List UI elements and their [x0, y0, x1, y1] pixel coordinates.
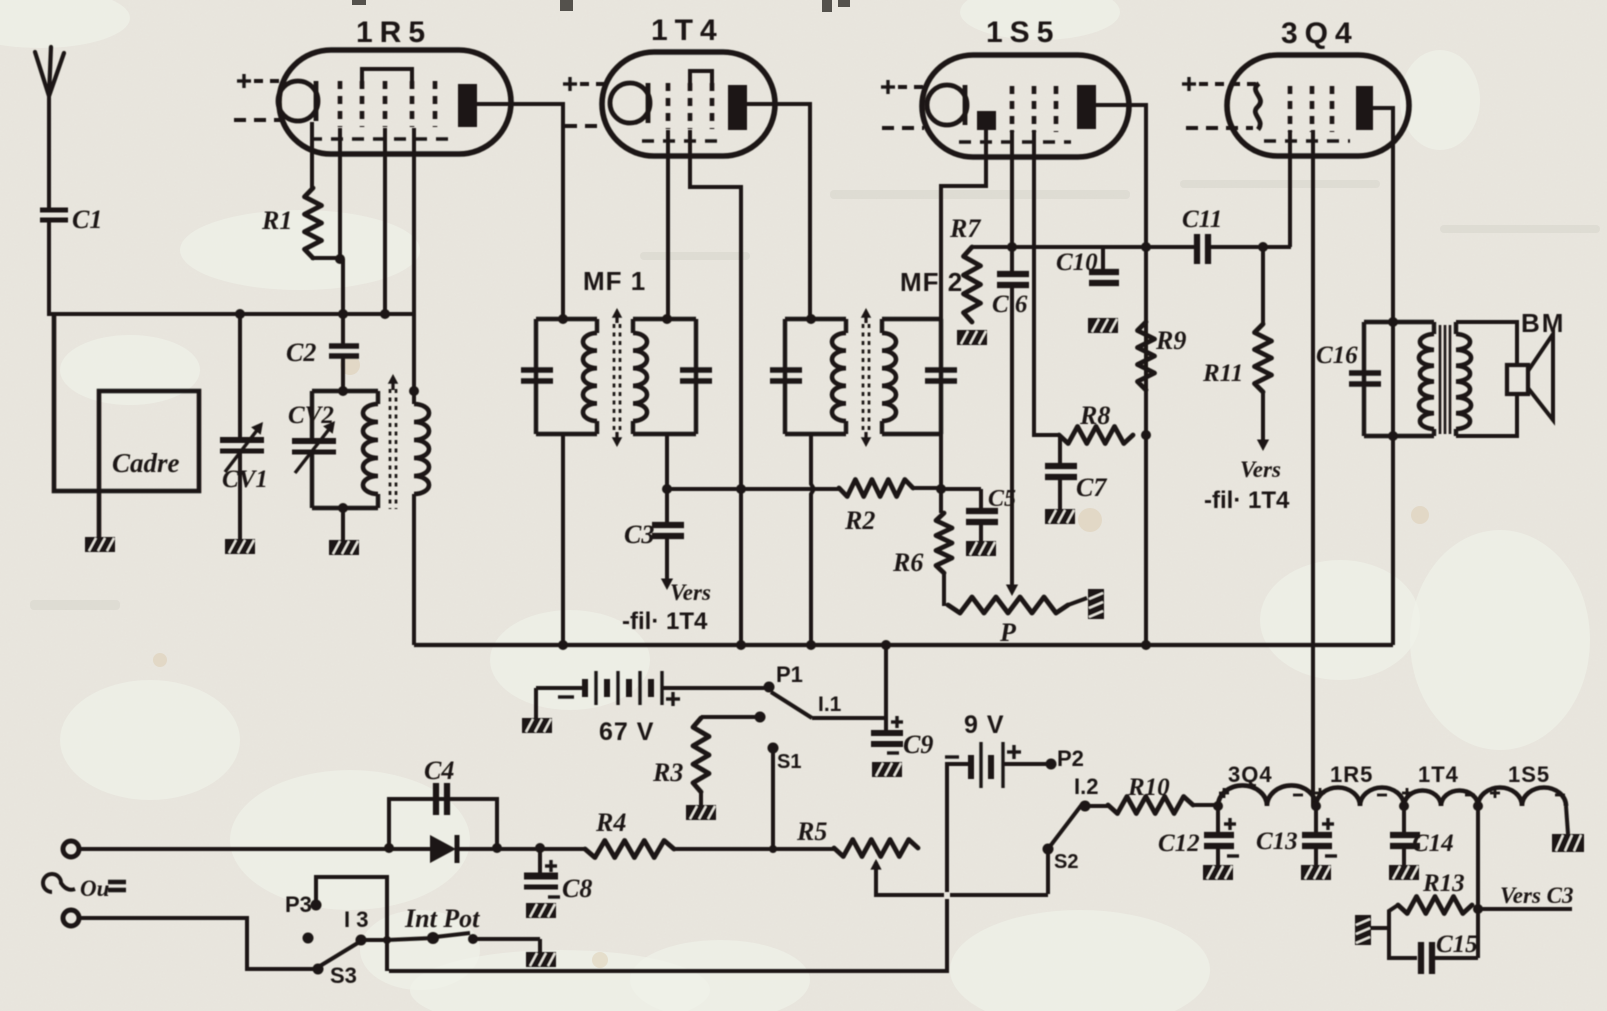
label I.1 — [818, 693, 842, 716]
label C16 — [1316, 342, 1358, 369]
label P3 — [285, 892, 312, 917]
label R10 — [1127, 774, 1170, 801]
label Vers fil 1T4 (C3) — [622, 580, 711, 635]
MF1 secondary coil — [633, 319, 647, 434]
1T4 minus lead — [565, 124, 607, 128]
label R9 — [1155, 326, 1186, 355]
wire diode to R4 — [457, 847, 585, 851]
contact P2 — [1046, 759, 1057, 770]
wire 9V plus to P2 — [1003, 762, 1048, 766]
variable capacitor CV1 — [220, 422, 264, 472]
svg-text:C11: C11 — [1182, 206, 1222, 233]
label C6 — [992, 291, 1028, 318]
3Q4 grid2 lead — [1311, 130, 1315, 806]
junction bus C9 — [881, 640, 891, 650]
svg-text:R13: R13 — [1422, 870, 1465, 897]
svg-text:C15: C15 — [1436, 931, 1478, 958]
label C3 — [624, 520, 654, 549]
junction C11-R11 — [1258, 242, 1268, 252]
junction AVC-1T4 lead — [736, 484, 746, 494]
svg-text:R9: R9 — [1155, 326, 1186, 355]
junction chain C14 — [1399, 801, 1409, 811]
wire AVC line — [667, 487, 839, 491]
svg-text:R5: R5 — [796, 817, 827, 846]
label R11 — [1202, 360, 1243, 387]
MF1 primary coil — [583, 319, 597, 434]
svg-text:Vers C3: Vers C3 — [1500, 883, 1574, 908]
filament choke 1R5 — [1316, 788, 1404, 806]
wire CV1 to ground — [238, 452, 242, 540]
label CV1 — [222, 466, 268, 493]
label 9V — [964, 711, 1005, 739]
svg-text:MF 2: MF 2 — [900, 267, 963, 297]
junction bus-grid3 — [380, 309, 390, 319]
junction C4 right — [492, 843, 502, 853]
wire R13 left — [1371, 905, 1398, 928]
svg-text:C8: C8 — [562, 874, 592, 903]
capacitor C12 — [1204, 806, 1239, 866]
wire Vers C3 — [1478, 907, 1572, 911]
label 1T4 — [651, 14, 724, 47]
label PU Ou — [43, 874, 126, 901]
wire input2 — [79, 918, 314, 969]
svg-text:R2: R2 — [844, 506, 875, 535]
1R5 filament lead — [310, 122, 314, 188]
ground C13 — [1301, 865, 1331, 880]
capacitor C16 — [1349, 322, 1381, 436]
label R4 — [595, 808, 626, 837]
MF2 primary box — [785, 319, 846, 434]
label C12 — [1158, 830, 1200, 857]
resistor R13 — [1398, 897, 1472, 914]
ground C12 — [1203, 865, 1233, 880]
junction grid1-R7 — [1007, 242, 1017, 252]
speaker BM — [1507, 334, 1553, 420]
1S5 plate — [1077, 85, 1096, 129]
junction plate-xfmr top — [1388, 317, 1398, 327]
resistor R4 — [585, 841, 674, 858]
capacitor C4 — [389, 783, 497, 847]
contact P3 — [311, 900, 322, 911]
svg-text:3Q4: 3Q4 — [1281, 17, 1359, 50]
label R5 — [796, 817, 827, 846]
ground C14 — [1389, 865, 1419, 880]
svg-text:1R5: 1R5 — [1330, 762, 1373, 787]
svg-text:C5: C5 — [988, 486, 1016, 512]
ground Int Pot — [526, 952, 556, 967]
svg-text:S1: S1 — [777, 751, 801, 773]
ground C10 — [1088, 318, 1118, 333]
wire MF1 secondary bottom — [665, 434, 669, 491]
label 1S5 — [986, 16, 1060, 49]
label S3 — [330, 963, 357, 988]
label I.2 — [1074, 774, 1098, 799]
label CV2 — [288, 402, 334, 429]
out transformer primary coil — [1419, 322, 1434, 436]
wire 9V minus — [389, 764, 971, 971]
wire AVC to C5 — [941, 487, 981, 491]
tube 1S5 envelope — [922, 55, 1129, 157]
loop antenna Cadre — [54, 314, 199, 537]
1R5 grid2 lead — [412, 128, 416, 316]
battery 67V — [536, 671, 680, 718]
svg-text:1S5: 1S5 — [1508, 762, 1550, 787]
svg-text:C7: C7 — [1076, 473, 1107, 502]
svg-text:C3: C3 — [624, 520, 654, 549]
MF2 primary cap — [770, 319, 802, 434]
capacitor C2 — [329, 346, 359, 356]
svg-text:3Q4: 3Q4 — [1228, 762, 1273, 787]
tube 1T4 envelope — [602, 52, 775, 156]
label choke 1T4 — [1418, 762, 1459, 787]
contact P1 — [764, 682, 775, 693]
3Q4 plate wire — [1372, 106, 1393, 645]
MF2 primary coil — [832, 319, 846, 434]
MF2 secondary coil — [882, 319, 896, 434]
speaker BM loop — [1456, 322, 1517, 436]
wire main bus — [414, 643, 1393, 647]
out transformer core — [1440, 325, 1450, 434]
label 3Q4 — [1281, 17, 1359, 50]
label C4 — [424, 756, 454, 785]
svg-text:Int Pot: Int Pot — [404, 904, 480, 933]
1S5 diode plate — [977, 111, 996, 130]
wire det line — [1012, 245, 1197, 249]
label Vers C3 — [1500, 883, 1574, 908]
wire top tank bus — [47, 312, 414, 316]
junction AVC right — [936, 484, 946, 494]
svg-text:-fil· 1T4: -fil· 1T4 — [622, 608, 708, 635]
junction C4 left — [384, 843, 394, 853]
junction MF2 primary top — [806, 314, 816, 324]
switch I.1 lever — [771, 692, 812, 718]
svg-text:I.1: I.1 — [818, 693, 842, 716]
junction chain C12 — [1213, 801, 1223, 811]
svg-text:R7: R7 — [949, 214, 981, 243]
label P2 — [1057, 746, 1084, 771]
ground R7 — [957, 330, 987, 345]
label R2 — [844, 506, 875, 535]
ground C8 — [526, 903, 556, 918]
junction MF1 primary top — [558, 314, 568, 324]
svg-text:R1: R1 — [261, 206, 292, 235]
label MF2 — [900, 267, 963, 297]
resistor R3 — [693, 712, 766, 807]
3Q4 grid1 lead — [1288, 130, 1292, 247]
label C10 — [1056, 249, 1098, 276]
capacitor C3 — [652, 489, 684, 590]
capacitor C6 — [997, 247, 1029, 285]
wire I.2 to R10 — [1085, 804, 1108, 808]
wire C11 right — [1208, 245, 1291, 249]
label MF1 — [583, 266, 646, 296]
capacitor C1 — [40, 210, 68, 220]
svg-text:R11: R11 — [1202, 360, 1243, 387]
3Q4 plate — [1356, 86, 1373, 130]
ground C9 — [872, 762, 902, 777]
ground C7 — [1045, 509, 1075, 524]
1R5 plate — [458, 84, 477, 127]
1R5 grid3 lead — [383, 128, 387, 316]
1R5 plus lead — [237, 74, 284, 88]
switch I.2 — [1051, 801, 1091, 846]
1S5 plate wire — [1095, 103, 1146, 645]
svg-text:R3: R3 — [652, 758, 683, 787]
capacitor C10 — [1089, 247, 1119, 283]
svg-text:CV1: CV1 — [222, 466, 268, 493]
label R7 — [949, 214, 981, 243]
svg-text:1T4: 1T4 — [651, 14, 724, 47]
MF2 secondary box — [882, 319, 941, 434]
resistor R10 — [1108, 797, 1193, 814]
svg-text:R10: R10 — [1127, 774, 1170, 801]
svg-text:1T4: 1T4 — [1418, 762, 1459, 787]
label C14 — [1412, 830, 1454, 857]
1R5 grid1 lead — [338, 128, 342, 260]
battery 9V — [945, 742, 1021, 788]
svg-text:P: P — [999, 618, 1017, 647]
wire bus to CV1 — [238, 314, 242, 441]
svg-text:R8: R8 — [1079, 401, 1110, 430]
label BM — [1521, 308, 1565, 338]
svg-text:9 V: 9 V — [964, 711, 1005, 739]
label C7 — [1076, 473, 1107, 502]
svg-text:1R5: 1R5 — [356, 16, 432, 49]
variable capacitor CV2 — [292, 391, 336, 508]
svg-text:P2: P2 — [1057, 746, 1084, 771]
junction MF1 secondary top — [662, 314, 672, 324]
ground R3 — [686, 805, 716, 820]
capacitor C13 — [1302, 806, 1337, 866]
svg-text:MF 1: MF 1 — [583, 266, 646, 296]
label Cadre — [112, 448, 180, 478]
svg-text:P3: P3 — [285, 892, 312, 917]
osc box bottom edge — [312, 503, 378, 513]
svg-text:Vers: Vers — [670, 580, 711, 605]
junction C8 — [535, 843, 545, 853]
switch Int Pot — [387, 932, 540, 953]
capacitor C7 — [1045, 437, 1077, 510]
3Q4 plus lead — [1182, 77, 1257, 91]
contact S1 — [768, 743, 779, 850]
svg-text:S3: S3 — [330, 963, 357, 988]
1R5 plate wire — [476, 102, 563, 106]
svg-text:C12: C12 — [1158, 830, 1200, 857]
wire C6 to pot wiper — [1006, 285, 1018, 596]
label C2 — [286, 338, 316, 367]
label C8 — [562, 874, 592, 903]
filament choke 1S5 — [1478, 788, 1566, 806]
label R8 — [1079, 401, 1110, 430]
resistor R2 — [839, 480, 913, 497]
svg-text:C16: C16 — [1316, 342, 1358, 369]
wire R10 to chain — [1193, 803, 1218, 807]
1S5 diode lead — [941, 130, 986, 320]
label I3 — [344, 907, 368, 932]
label S1 — [777, 751, 801, 773]
label R3 — [652, 758, 683, 787]
wire pot to ground — [1068, 598, 1087, 605]
wire MF2 primary bottom to bus — [811, 434, 814, 645]
label Vers fil 1T4 (R11) — [1204, 457, 1290, 514]
choke 3Q4 polarity — [1219, 788, 1303, 798]
svg-text:S2: S2 — [1054, 851, 1078, 873]
wire MF1 primary bottom to bus — [561, 434, 565, 645]
potentiometer P — [948, 597, 1068, 613]
switch S3 — [313, 935, 388, 975]
label R13 — [1422, 870, 1465, 897]
1R5 minus lead — [234, 118, 284, 122]
label 67V — [599, 718, 654, 746]
svg-text:67 V: 67 V — [599, 718, 654, 746]
1S5 plus lead — [881, 80, 928, 94]
tube 1R5 envelope — [278, 50, 511, 154]
contact I3 idle — [303, 933, 314, 944]
label choke 1S5 — [1508, 762, 1550, 787]
label Int Pot — [404, 904, 480, 933]
svg-text:I.2: I.2 — [1074, 774, 1098, 799]
filament choke 1T4 — [1404, 791, 1478, 807]
ground pot — [1088, 589, 1104, 619]
1T4 plus lead — [563, 77, 610, 91]
label S2 — [1054, 851, 1078, 873]
junction AVC left — [662, 484, 672, 494]
ground C5 — [966, 541, 996, 556]
3Q4 minus lead — [1186, 126, 1253, 130]
junction bus MF2 — [806, 640, 816, 650]
wire 1R5 plate to MF1 — [561, 102, 565, 320]
choke 1S5 polarity — [1490, 788, 1565, 798]
wire 1S5 choke to ground — [1566, 806, 1568, 834]
wire P3 net — [316, 877, 387, 971]
junction chain R13 — [1473, 801, 1483, 811]
ground 67V — [522, 718, 552, 733]
capacitor C11 — [1197, 234, 1208, 264]
label R1 — [261, 206, 292, 235]
label C5 — [988, 486, 1016, 512]
R5 wiper — [870, 859, 1048, 895]
label C1 — [72, 205, 102, 234]
wire input1 — [79, 847, 430, 851]
junction R8-plateline — [1141, 430, 1151, 440]
svg-text:I 3: I 3 — [344, 907, 368, 932]
svg-text:Ou: Ou — [80, 876, 110, 901]
resistor R7 — [964, 247, 981, 322]
osc secondary coil — [409, 314, 429, 645]
MF1 primary cap — [521, 319, 553, 434]
wire R7 top — [972, 245, 1012, 249]
wire osc tank to ground — [341, 508, 345, 541]
ground R13 — [1355, 915, 1371, 945]
1T4 plate wire — [746, 102, 810, 320]
MF1 secondary box — [633, 319, 696, 434]
terminal input 2 — [63, 910, 79, 926]
resistor R9 — [1138, 322, 1155, 390]
junction det-R9 — [1141, 242, 1151, 252]
svg-text:R4: R4 — [595, 808, 626, 837]
MF1 primary box — [536, 319, 597, 434]
wire I.1 to C9 — [812, 716, 886, 720]
diode detector — [430, 835, 457, 863]
MF1 secondary cap — [680, 319, 712, 434]
resistor R5 — [834, 840, 918, 857]
capacitor C5 — [966, 489, 998, 542]
wire R2 right — [913, 486, 941, 490]
junction IntPot net — [383, 936, 391, 944]
resistor R8 — [1059, 427, 1133, 444]
capacitor C15 — [1389, 928, 1478, 974]
out transformer primary box — [1364, 322, 1434, 436]
MF2 secondary cap — [925, 319, 957, 434]
ground CV1 — [225, 539, 255, 554]
wire antenna to bus — [47, 220, 51, 316]
junction R13-VersC3 — [1473, 904, 1483, 914]
capacitor C8 — [524, 848, 560, 897]
svg-text:C10: C10 — [1056, 249, 1098, 276]
label C9 — [903, 730, 933, 759]
label P — [999, 618, 1017, 647]
svg-text:Vers: Vers — [1240, 457, 1281, 482]
capacitor C14 — [1390, 806, 1420, 866]
label C15 — [1436, 931, 1478, 958]
junction bus R9 — [1141, 640, 1151, 650]
label choke 1R5 — [1330, 762, 1373, 787]
wire R1 bottom — [311, 254, 345, 264]
contact S2 — [1043, 844, 1054, 895]
svg-text:C14: C14 — [1412, 830, 1454, 857]
filament choke 3Q4 — [1218, 785, 1316, 806]
svg-text:P1: P1 — [776, 662, 803, 687]
ground cadre — [85, 537, 115, 552]
junction plate-xfmr bottom — [1388, 431, 1398, 441]
wire grid lead to C2 — [341, 259, 345, 347]
ground choke end — [1552, 834, 1584, 852]
osc primary coil — [363, 391, 378, 508]
1S5 grid1 lead — [1010, 130, 1014, 246]
junction S1 wire — [769, 845, 777, 853]
1S5 minus lead — [882, 126, 924, 130]
ground osc tank — [329, 540, 359, 555]
junction bus-CV1 — [235, 309, 245, 319]
junction chain C13 — [1311, 801, 1321, 811]
tube 3Q4 envelope — [1227, 55, 1409, 156]
label 1R5 — [356, 16, 432, 49]
wire R4 to R5 — [674, 847, 834, 851]
MF1 core — [612, 308, 622, 447]
1T4 grid2 lead — [690, 130, 741, 645]
1S5 grid2 lead — [1034, 130, 1059, 435]
out transformer secondary coil — [1456, 322, 1471, 436]
junction bus MF1 — [558, 640, 568, 650]
label C11 — [1182, 206, 1222, 233]
wire chain to R13 — [1476, 806, 1480, 958]
capacitor C9 — [871, 645, 903, 753]
svg-text:BM: BM — [1521, 308, 1565, 338]
junction bus-C2col — [338, 309, 348, 319]
1R5 screen bracket — [362, 69, 412, 82]
svg-text:C4: C4 — [424, 756, 454, 785]
svg-text:C13: C13 — [1256, 828, 1298, 855]
svg-text:C2: C2 — [286, 338, 316, 367]
choke 1T4 polarity — [1402, 788, 1475, 798]
MF2 core — [861, 308, 871, 447]
osc box top edge — [312, 386, 378, 396]
wire MF2 secondary bottom — [939, 434, 943, 490]
svg-text:C 6: C 6 — [992, 291, 1028, 318]
label choke 3Q4 — [1228, 762, 1273, 787]
junction bus 1T4lead — [736, 640, 746, 650]
svg-text:R6: R6 — [892, 548, 923, 577]
